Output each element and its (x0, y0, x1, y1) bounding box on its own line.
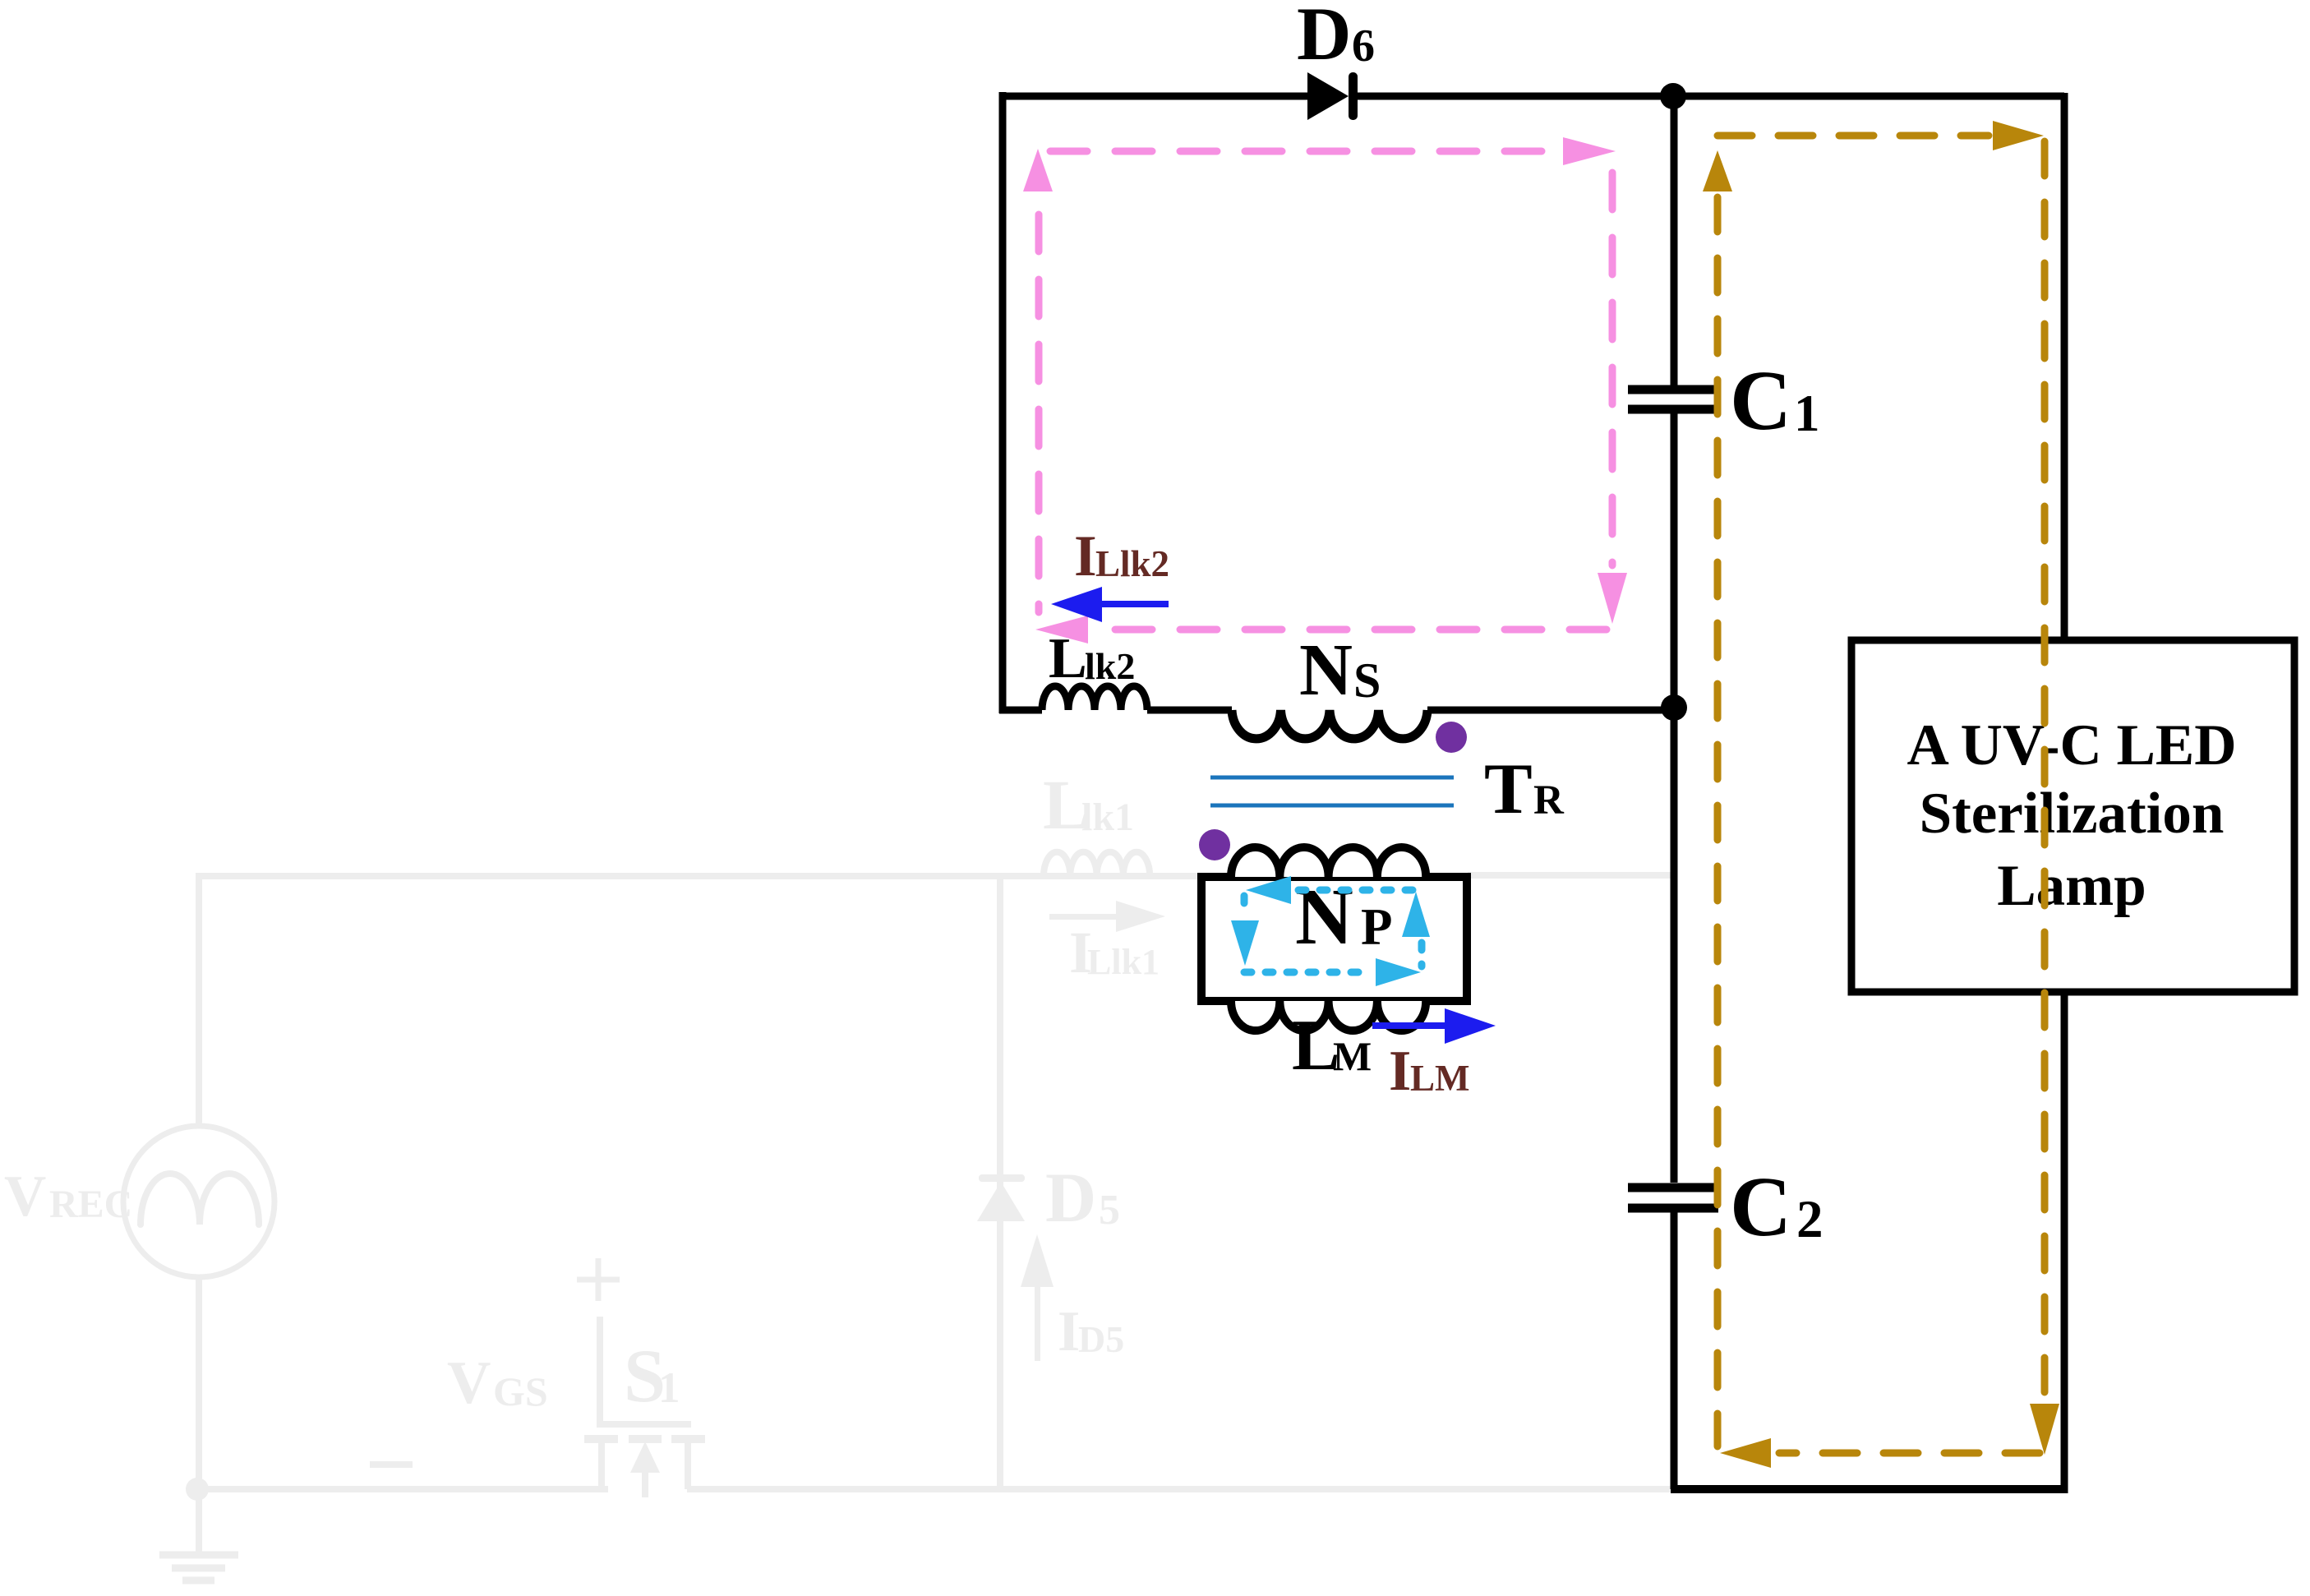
body arrow of S1 (630, 1441, 660, 1473)
svg-text:S: S (1353, 653, 1381, 708)
label ILM (dark red) (1389, 1040, 1470, 1103)
wire bottom black (1671, 1485, 2064, 1493)
svg-text:I: I (1058, 1300, 1080, 1363)
loop pink secondary current path (1039, 151, 1612, 630)
capacitor C2 (1628, 1188, 1718, 1208)
node grey bottom-left junction (186, 1478, 209, 1501)
wire top right segment (1358, 93, 2064, 100)
gate lead (600, 1317, 691, 1424)
winding NP top coil (1231, 847, 1426, 877)
body stub (642, 1471, 648, 1497)
wire secondary left vertical (999, 92, 1007, 713)
wire main vertical middle (C1 to C2) (1671, 413, 1678, 1183)
arrow cyan right (bottom-right) (1376, 958, 1421, 986)
label TR (1484, 750, 1565, 829)
svg-text:C: C (1730, 353, 1791, 448)
loop olive output current path (1718, 136, 2045, 1453)
svg-text:N: N (1295, 873, 1353, 962)
arrow ID5 (grey) (1021, 1234, 1054, 1361)
loop cyan magnetizing current path (1244, 890, 1422, 972)
ground (159, 1555, 238, 1580)
svg-text:D5: D5 (1078, 1318, 1124, 1360)
node NS junction (1661, 694, 1687, 721)
plus sign (577, 1258, 620, 1301)
label LM (1292, 1006, 1372, 1086)
svg-text:1: 1 (658, 1364, 680, 1412)
label Llk2 (1049, 627, 1135, 690)
wire NS to node (1427, 707, 1676, 714)
winding NS (1232, 710, 1427, 739)
transistor S1 MOSFET (grey) (577, 1258, 705, 1497)
arrow olive up (left edge top) (1703, 150, 1732, 191)
wire grey top rail (199, 873, 1201, 879)
source stub (598, 1442, 605, 1489)
svg-text:6: 6 (1352, 21, 1375, 71)
svg-text:Llk1: Llk1 (1087, 942, 1160, 982)
arrow cyan down (left edge bottom) (1231, 920, 1259, 966)
wire secondary bottom: left stub (999, 707, 1042, 714)
drain stub (685, 1442, 691, 1489)
label VREC (grey) (4, 1165, 132, 1229)
svg-text:LM: LM (1410, 1058, 1470, 1099)
label ILlk2 (dark red) (1074, 524, 1169, 588)
wire primary rail right of NP (1468, 872, 1671, 879)
source VREC m symbol (141, 1174, 259, 1225)
channel segments (584, 1435, 705, 1443)
winding LM bottom coil (1231, 1001, 1426, 1031)
diode D5 (grey) (977, 1174, 1025, 1221)
svg-text:T: T (1484, 750, 1533, 829)
wire VREC bottom branch (196, 1275, 202, 1555)
polarity dot secondary (1436, 722, 1467, 753)
arrow pink right (top-right) (1563, 137, 1616, 165)
polarity dot primary (1199, 829, 1230, 860)
arrow pink left (bottom-left) (1035, 616, 1088, 643)
wire grey bottom rail right (687, 1486, 1671, 1492)
minus sign (370, 1461, 413, 1468)
svg-text:C: C (1730, 1160, 1791, 1254)
svg-text:Llk2: Llk2 (1095, 543, 1169, 584)
diode D6 (1307, 72, 1358, 120)
wire main vertical lower (C2 to bottom) (1671, 1212, 1678, 1489)
label NS (1299, 630, 1381, 711)
svg-text:I: I (1389, 1040, 1411, 1103)
label VGS (grey) (447, 1349, 548, 1417)
svg-text:P: P (1361, 898, 1392, 956)
source VREC circle (123, 1126, 274, 1277)
wire top left segment (1003, 93, 1307, 100)
svg-text:1: 1 (1794, 385, 1820, 442)
arrow olive right (top edge end) (1993, 121, 2044, 150)
svg-text:lk1: lk1 (1081, 796, 1134, 839)
arrow blue ILM (1372, 1008, 1496, 1044)
svg-text:V: V (4, 1165, 46, 1229)
arrow blue ILlk2 (1051, 587, 1169, 622)
svg-text:I: I (1074, 524, 1097, 588)
wire VREC top branch (196, 873, 202, 1128)
svg-text:Sterilization: Sterilization (1920, 782, 2225, 846)
svg-text:REC: REC (49, 1183, 132, 1226)
node top junction (1660, 83, 1686, 109)
inductor Llk2 (1042, 686, 1147, 710)
inductor Llk1 (grey) (1044, 852, 1150, 876)
winding NP loop rectangle (1201, 877, 1467, 1001)
wire grey bottom rail left (196, 1486, 608, 1492)
arrow pink up (top-left) (1023, 149, 1053, 191)
label ILlk1 (grey) (1069, 920, 1160, 985)
svg-text:2: 2 (1796, 1190, 1824, 1249)
svg-text:V: V (447, 1349, 491, 1417)
wire D5 branch (997, 876, 1003, 1489)
capacitor C1 (1628, 390, 1718, 409)
label NP (1295, 873, 1392, 962)
svg-text:A UV-C LED: A UV-C LED (1907, 713, 2236, 777)
svg-text:M: M (1333, 1033, 1372, 1079)
arrow cyan left (top-left) (1246, 876, 1291, 904)
arrow ILlk1 (grey) (1049, 901, 1165, 932)
wire right vertical upper (2061, 93, 2068, 643)
arrow pink down (bottom-right) (1598, 573, 1627, 624)
arrow cyan up (right edge top) (1402, 892, 1430, 937)
svg-text:5: 5 (1099, 1187, 1120, 1234)
label C1 (1730, 353, 1820, 448)
wire between Llk2 and NS (1147, 707, 1232, 714)
wire right vertical lower (2061, 989, 2068, 1493)
transformer TR core (1210, 777, 1454, 805)
svg-text:GS: GS (493, 1368, 548, 1414)
svg-text:N: N (1299, 630, 1353, 711)
label D5 (grey) (1045, 1158, 1120, 1237)
arrow olive left (bottom edge left) (1720, 1438, 1771, 1468)
svg-text:D: D (1297, 0, 1351, 76)
arrow olive down (right edge bottom) (2030, 1404, 2059, 1455)
wire main vertical upper (node to C1) (1671, 96, 1678, 385)
load box A UV-C LED Sterilization Lamp (1851, 640, 2294, 992)
svg-text:lk2: lk2 (1085, 645, 1135, 687)
label D6 (1297, 0, 1375, 76)
label S1 (grey) (624, 1334, 680, 1418)
label ID5 (grey) (1058, 1300, 1124, 1363)
svg-text:Lamp: Lamp (1997, 854, 2146, 918)
label Llk1 (grey) (1043, 765, 1134, 844)
label C2 (1730, 1160, 1824, 1254)
svg-text:R: R (1533, 777, 1565, 823)
svg-text:D: D (1045, 1158, 1096, 1237)
